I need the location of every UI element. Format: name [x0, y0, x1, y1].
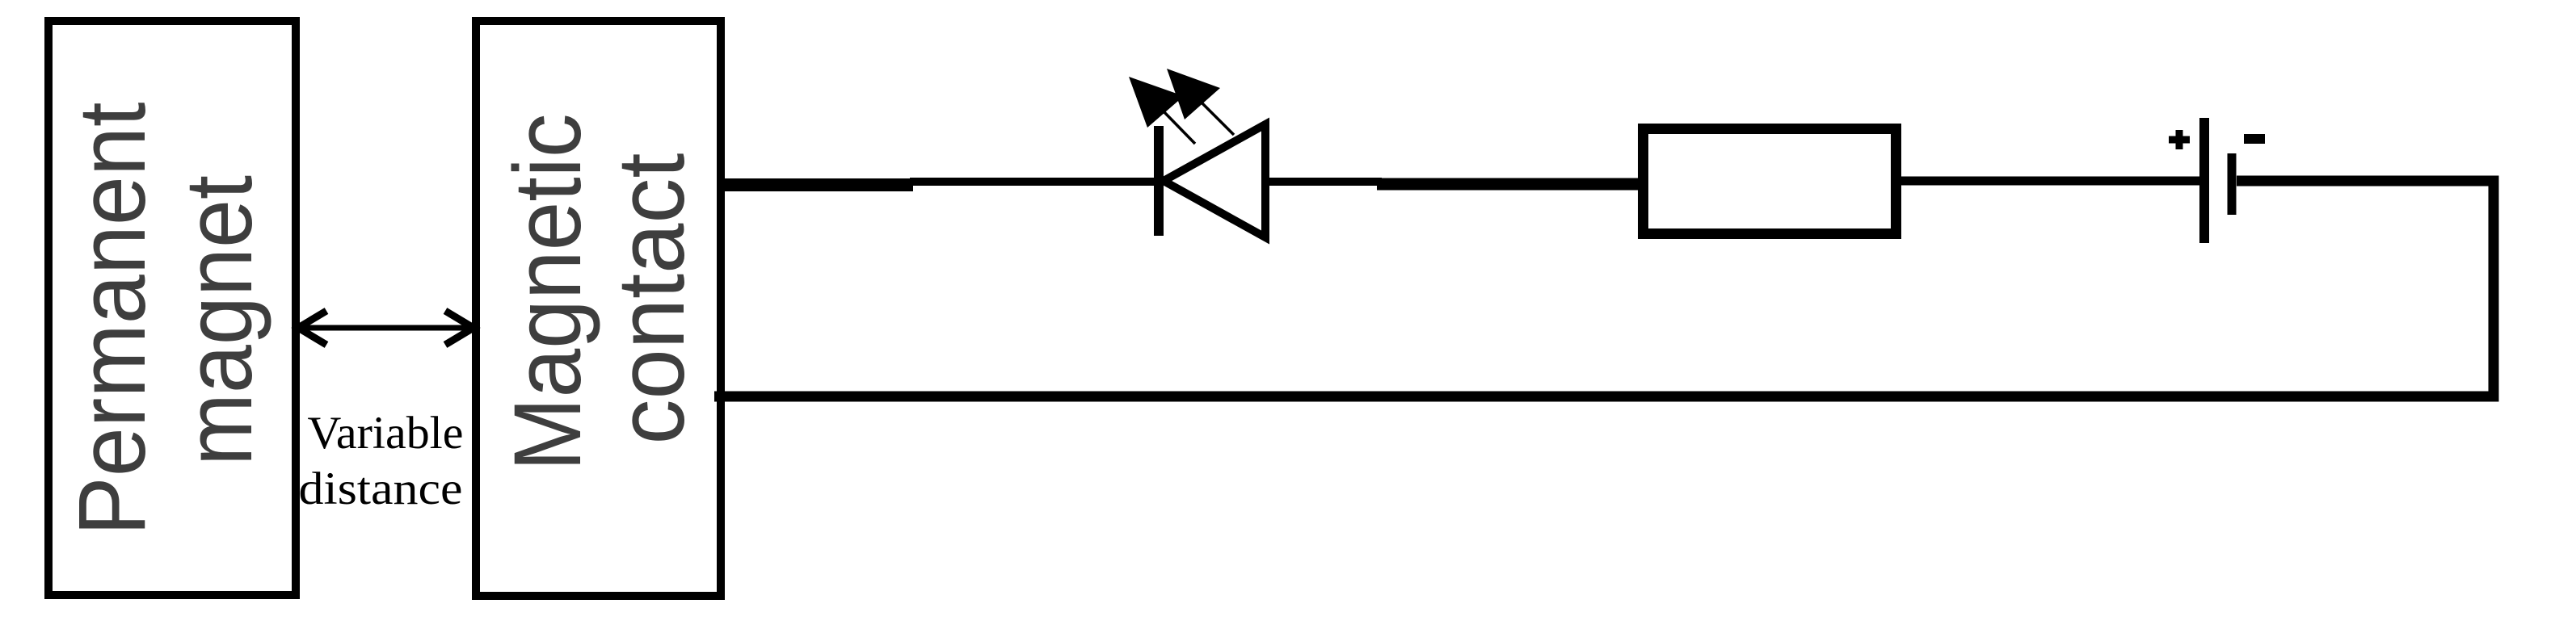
svg-text:distance: distance [299, 463, 463, 514]
battery negative plate (short) [2228, 153, 2237, 215]
magnetic contact box [476, 21, 721, 596]
battery positive plate (long) [2199, 118, 2209, 243]
permanent magnet box [48, 21, 296, 595]
LED cathode bar [1154, 126, 1164, 236]
wire: resistor to battery [1901, 177, 2203, 186]
battery minus sign [2244, 134, 2265, 144]
resistor R [1644, 129, 1896, 234]
LED light arrow 1 [1129, 77, 1195, 144]
svg-text:Permanent: Permanent [59, 103, 166, 536]
svg-text:Variable: Variable [308, 408, 464, 459]
svg-text:magnet: magnet [166, 175, 272, 466]
wire: thin segment to LED cathode [910, 178, 1159, 186]
wire: magnetic contact to LED (thick segment) [719, 178, 913, 191]
LED triangle [1164, 124, 1265, 237]
svg-text:Magnetic: Magnetic [495, 114, 601, 472]
wire: LED to resistor (thin segment) [1269, 178, 1382, 186]
LED light arrow 2 [1167, 69, 1234, 135]
variable distance arrow [298, 311, 474, 345]
battery plus sign [2169, 130, 2190, 149]
variable distance label [299, 408, 464, 514]
magnetic contact label [495, 114, 705, 472]
wire: battery to right edge, down and back to magnetic contact [714, 181, 2494, 396]
battery B1 [2169, 118, 2265, 243]
LED D1 [1129, 69, 1265, 237]
permanent magnet label [59, 103, 272, 536]
svg-text:contact: contact [598, 153, 705, 445]
wire: LED to resistor (thick segment) [1377, 178, 1643, 191]
